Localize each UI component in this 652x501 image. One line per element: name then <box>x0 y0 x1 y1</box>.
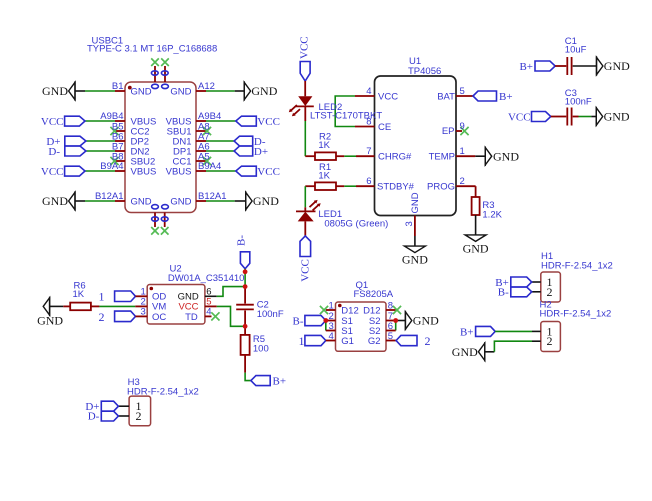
svg-text:2: 2 <box>547 334 553 348</box>
svg-text:GND: GND <box>131 86 152 97</box>
svg-text:OC: OC <box>152 312 166 323</box>
svg-text:5: 5 <box>388 331 393 342</box>
svg-text:B+: B+ <box>273 376 287 388</box>
svg-text:GND: GND <box>413 314 439 328</box>
svg-text:D12: D12 <box>363 305 380 316</box>
svg-text:VCC: VCC <box>41 166 64 178</box>
svg-text:VBUS: VBUS <box>166 166 192 177</box>
svg-text:VCC: VCC <box>257 116 280 128</box>
svg-text:GND: GND <box>493 149 519 163</box>
svg-text:VCC: VCC <box>378 91 398 102</box>
svg-text:3: 3 <box>141 307 146 318</box>
svg-text:1.2K: 1.2K <box>482 209 502 220</box>
svg-text:100nF: 100nF <box>565 96 592 107</box>
svg-text:VCC: VCC <box>298 36 310 59</box>
svg-text:CE: CE <box>378 122 391 133</box>
svg-text:B9A4: B9A4 <box>198 161 221 172</box>
svg-text:1K: 1K <box>318 140 330 151</box>
svg-text:B+: B+ <box>460 326 474 338</box>
svg-text:100: 100 <box>253 344 269 355</box>
svg-text:2: 2 <box>460 176 465 187</box>
svg-text:TEMP: TEMP <box>429 152 455 163</box>
svg-text:D+: D+ <box>254 146 268 158</box>
svg-text:1: 1 <box>99 290 105 304</box>
svg-text:VBUS: VBUS <box>131 166 157 177</box>
svg-text:GND: GND <box>604 59 630 73</box>
svg-text:GND: GND <box>131 196 152 207</box>
svg-text:EP: EP <box>442 126 455 137</box>
svg-text:VCC: VCC <box>257 166 280 178</box>
svg-text:4: 4 <box>329 331 334 342</box>
svg-text:G1: G1 <box>341 336 354 347</box>
svg-text:GND: GND <box>402 252 428 266</box>
svg-text:B-: B- <box>235 235 247 246</box>
svg-text:1K: 1K <box>318 171 330 182</box>
svg-text:1: 1 <box>299 334 305 348</box>
svg-text:TD: TD <box>185 312 198 323</box>
svg-text:LTST-C170TBKT: LTST-C170TBKT <box>310 111 382 122</box>
svg-text:9: 9 <box>460 121 465 132</box>
svg-text:TP4056: TP4056 <box>408 66 441 77</box>
svg-text:100nF: 100nF <box>257 309 284 320</box>
svg-text:2: 2 <box>99 310 105 324</box>
svg-text:B+: B+ <box>519 61 533 73</box>
svg-text:HDR-F-2.54_1x2: HDR-F-2.54_1x2 <box>541 260 613 271</box>
svg-text:GND: GND <box>42 194 68 208</box>
svg-text:B-: B- <box>498 287 509 299</box>
svg-text:GND: GND <box>170 196 191 207</box>
svg-text:4: 4 <box>366 86 371 97</box>
svg-text:BAT: BAT <box>437 91 455 102</box>
svg-text:GND: GND <box>410 192 421 213</box>
svg-text:G2: G2 <box>368 336 381 347</box>
svg-text:A12: A12 <box>198 81 215 92</box>
svg-text:D-: D- <box>48 146 60 158</box>
svg-text:STDBY#: STDBY# <box>377 182 415 193</box>
svg-text:DW01A_C351410: DW01A_C351410 <box>168 273 245 284</box>
svg-text:GND: GND <box>452 345 478 359</box>
svg-text:B9A4: B9A4 <box>100 161 123 172</box>
svg-text:B+: B+ <box>499 91 513 103</box>
svg-text:FS8205A: FS8205A <box>354 289 394 300</box>
svg-text:VCC: VCC <box>299 259 311 282</box>
svg-text:D12: D12 <box>341 305 358 316</box>
svg-text:7: 7 <box>366 146 371 157</box>
svg-text:8: 8 <box>388 300 393 311</box>
svg-text:2: 2 <box>136 409 142 423</box>
svg-text:B-: B- <box>293 316 304 328</box>
svg-text:0805G (Green): 0805G (Green) <box>324 218 388 229</box>
svg-text:VCC: VCC <box>41 116 64 128</box>
svg-text:B12A1: B12A1 <box>95 191 124 202</box>
svg-text:GND: GND <box>170 86 191 97</box>
svg-text:1: 1 <box>329 300 334 311</box>
svg-text:B1: B1 <box>112 81 124 92</box>
svg-text:PROG: PROG <box>427 182 455 193</box>
svg-text:GND: GND <box>253 194 279 208</box>
svg-text:VCC: VCC <box>508 112 531 124</box>
svg-text:2: 2 <box>547 285 553 299</box>
svg-text:1K: 1K <box>73 289 85 300</box>
svg-text:B12A1: B12A1 <box>198 191 227 202</box>
svg-text:1: 1 <box>460 146 465 157</box>
svg-text:HDR-F-2.54_1x2: HDR-F-2.54_1x2 <box>540 309 612 320</box>
svg-text:GND: GND <box>604 110 630 124</box>
svg-text:CHRG#: CHRG# <box>378 152 412 163</box>
svg-text:D-: D- <box>88 411 100 423</box>
svg-text:TYPE-C 3.1 MT 16P_C168688: TYPE-C 3.1 MT 16P_C168688 <box>87 43 217 54</box>
svg-text:2: 2 <box>425 334 431 348</box>
svg-text:10uF: 10uF <box>565 45 587 56</box>
svg-text:6: 6 <box>366 176 371 187</box>
svg-text:3: 3 <box>404 221 415 226</box>
svg-text:GND: GND <box>42 84 68 98</box>
svg-text:5: 5 <box>460 86 465 97</box>
svg-text:GND: GND <box>37 313 63 327</box>
svg-text:GND: GND <box>251 84 277 98</box>
svg-text:GND: GND <box>463 241 489 255</box>
